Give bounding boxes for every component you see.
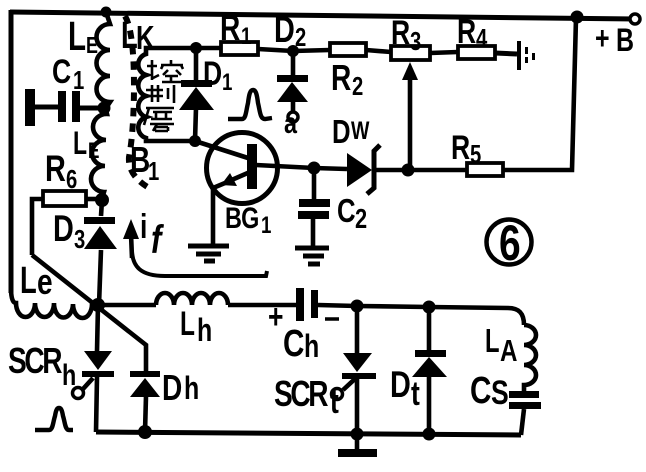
svg-text:R: R	[220, 8, 240, 48]
svg-text:h: h	[197, 313, 212, 349]
svg-text:D: D	[274, 10, 295, 51]
wire top +B rail	[10, 12, 636, 19]
svg-text:R: R	[391, 14, 410, 52]
wire D2 branch	[291, 51, 296, 111]
svg-text:BG: BG	[225, 201, 259, 234]
wire DW to node	[374, 168, 408, 173]
capacitor C1	[25, 89, 35, 126]
diode D3	[84, 217, 115, 224]
wire R5 to right column	[503, 18, 576, 170]
resistor R4	[458, 46, 495, 59]
thyristor SCRh gate	[83, 378, 93, 389]
diode D1	[181, 80, 212, 87]
svg-text:t: t	[411, 375, 420, 413]
svg-text:h: h	[184, 371, 199, 407]
terminal a open circle	[288, 112, 298, 122]
node Dt bottom	[423, 428, 436, 441]
node SCRt bottom	[351, 428, 364, 441]
wire R2 to R3	[366, 50, 391, 52]
svg-text:W: W	[351, 117, 370, 145]
svg-text:4: 4	[476, 24, 487, 53]
wire D1 branch	[195, 48, 196, 141]
svg-text:D: D	[203, 55, 222, 93]
capacitor after R4	[517, 41, 521, 70]
wire Dt branch	[427, 307, 432, 434]
svg-text:SCR: SCR	[274, 374, 328, 414]
wire R6 left leg	[32, 199, 43, 255]
svg-text:3: 3	[410, 27, 421, 56]
capacitor Cs	[509, 391, 539, 398]
svg-text:a: a	[284, 106, 298, 139]
svg-text:C: C	[283, 323, 304, 365]
wire SCRh branch	[96, 305, 98, 432]
svg-text:2: 2	[295, 23, 306, 52]
current arrow if	[131, 234, 132, 258]
wire R6 to node	[86, 197, 102, 202]
node Dt top	[423, 301, 436, 314]
thyristor SCRt	[343, 353, 372, 372]
inductor LK control winding	[138, 48, 196, 141]
terminal +B open circle	[630, 14, 640, 24]
svg-text:1: 1	[222, 69, 232, 96]
waveform pulse near a	[228, 90, 272, 119]
wire Cs to bottom rail	[521, 409, 524, 435]
svg-text:2: 2	[355, 203, 367, 234]
node top-left LE junction	[101, 7, 112, 18]
node Le / Lh / D3 / SCRh	[91, 298, 105, 312]
svg-text:+: +	[268, 298, 283, 336]
wire R1 to D2 node	[258, 49, 293, 51]
node Dh bottom	[138, 425, 152, 439]
svg-text:1: 1	[241, 23, 251, 50]
wire R4 to cap	[495, 53, 517, 54]
node D1 bottom / base	[189, 135, 201, 147]
transistor BG1 collector	[256, 165, 314, 168]
inductor Lh	[156, 293, 228, 305]
diode Dt	[415, 350, 446, 357]
svg-text:S: S	[491, 374, 509, 412]
svg-text:L: L	[73, 125, 87, 161]
wire SCRt branch	[355, 306, 360, 434]
inductor LE upper section	[97, 12, 110, 108]
svg-text:e: e	[37, 262, 53, 302]
inductor Le	[11, 288, 98, 318]
node Ch / SCRt	[351, 300, 364, 313]
thyristor SCRh	[84, 351, 112, 370]
diode D2	[277, 75, 308, 82]
capacitor Ch	[296, 288, 304, 321]
svg-text:1: 1	[73, 66, 84, 95]
svg-text:L: L	[485, 323, 500, 360]
node LE bottom / D3	[95, 193, 109, 207]
transistor BG1 emitter	[227, 172, 250, 182]
resistor R5	[467, 163, 503, 176]
resistor R2	[330, 43, 366, 56]
wire D2 node to R2	[293, 50, 330, 51]
figure number 6 circle	[487, 220, 532, 265]
node LK top / R1	[190, 42, 202, 54]
diode Dh	[130, 371, 160, 377]
svg-text:1: 1	[148, 157, 159, 186]
svg-text:i: i	[140, 208, 147, 246]
wire R3 to R4	[430, 52, 458, 53]
node collector / C2	[308, 162, 321, 175]
svg-text:D: D	[162, 368, 182, 408]
wire C2 branch	[313, 168, 314, 247]
svg-text:R: R	[457, 13, 476, 51]
wire node to Lh	[98, 303, 156, 308]
wire Dh branch lower	[145, 396, 146, 432]
svg-text:B: B	[616, 23, 634, 59]
label control-winding hanzi zhi	[146, 85, 174, 103]
svg-text:t: t	[330, 383, 339, 421]
inductor LA	[524, 325, 536, 392]
wire node to Dt node	[357, 306, 429, 307]
svg-text:L: L	[121, 15, 138, 57]
wire Lh to Ch	[228, 303, 296, 308]
svg-text:E: E	[88, 139, 99, 164]
label control-winding hanzi kong	[147, 60, 183, 82]
svg-text:C: C	[470, 370, 491, 412]
transistor BG1 base bar	[247, 144, 257, 189]
annotation curve if loop	[132, 252, 267, 276]
ground SCRt bottom	[355, 434, 360, 450]
svg-text:L: L	[180, 305, 195, 343]
wire collector node to DW	[314, 168, 347, 169]
svg-text:D: D	[53, 209, 74, 250]
svg-text:h: h	[62, 358, 76, 391]
resistor R6	[43, 191, 86, 206]
node top-right column junction	[571, 11, 584, 24]
wire diagonal R6 leg to Dh	[32, 255, 146, 372]
node D2	[287, 45, 299, 57]
node C1/LE	[98, 102, 111, 115]
core B1 dashed line	[125, 16, 151, 189]
svg-text:SCR: SCR	[8, 341, 62, 381]
thyristor SCRt gate	[343, 377, 357, 390]
inductor LE lower section	[91, 110, 107, 199]
svg-text:E: E	[86, 33, 98, 59]
svg-text:R: R	[45, 149, 66, 190]
svg-text:R: R	[451, 129, 470, 167]
svg-text:2: 2	[352, 72, 363, 101]
svg-text:C: C	[337, 193, 356, 230]
capacitor C2	[299, 199, 330, 207]
wire R3 wiper arrow	[408, 76, 413, 170]
label control-winding hanzi mo	[144, 108, 174, 131]
node DW / R5 / wiper	[402, 164, 415, 177]
waveform pulse bottom left	[35, 408, 73, 430]
svg-text:3: 3	[74, 225, 85, 254]
svg-text:6: 6	[499, 214, 521, 271]
svg-text:+: +	[595, 21, 610, 57]
svg-text:1: 1	[261, 212, 271, 239]
wire left border down to Le	[9, 10, 14, 293]
svg-text:5: 5	[470, 140, 481, 169]
ground BG1 emitter	[188, 246, 229, 261]
wire Dt node to LA	[429, 307, 524, 325]
svg-text:R: R	[331, 58, 351, 98]
svg-text:A: A	[500, 333, 517, 368]
wire node to R1	[196, 46, 221, 51]
resistor R3 potentiometer	[391, 46, 430, 60]
svg-text:D: D	[390, 365, 411, 406]
ground C2	[295, 248, 329, 264]
wire D3 branch	[99, 200, 102, 305]
svg-text:h: h	[304, 329, 319, 365]
svg-text:L: L	[20, 260, 37, 302]
transistor BG1 circle	[207, 133, 278, 204]
zener DW	[347, 153, 372, 187]
svg-text:C: C	[52, 53, 71, 91]
svg-text:D: D	[332, 114, 351, 151]
wire bottom rail	[96, 432, 521, 435]
wire node to R5	[408, 168, 467, 173]
wire Ch to SCRt node	[318, 305, 357, 306]
wire LK bottom to BG1 base	[195, 141, 248, 158]
resistor R1	[221, 42, 258, 55]
